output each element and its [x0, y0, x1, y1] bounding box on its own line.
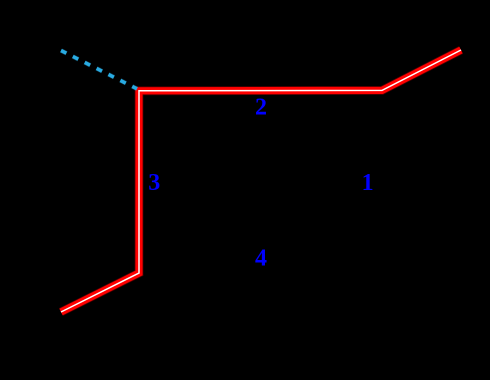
svg-text:4: 4 [255, 245, 267, 271]
svg-text:1: 1 [362, 170, 374, 196]
svg-text:2: 2 [255, 95, 267, 121]
svg-text:3: 3 [148, 170, 160, 196]
